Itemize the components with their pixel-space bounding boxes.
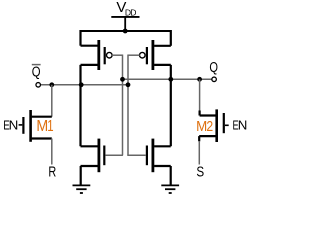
- wire right PMOS source elbow: [170, 30, 172, 46]
- ground right: [161, 185, 179, 193]
- label M2: [196, 117, 213, 134]
- wire M1 source to R: [51, 139, 53, 165]
- wire M2 drain: [199, 79, 201, 111]
- junction right inverter drain on Q line: [168, 77, 173, 82]
- terminal Qbar: [36, 83, 41, 88]
- svg-text:2: 2: [206, 118, 213, 134]
- junction A on Q line: [120, 77, 125, 82]
- nmos left (pull-down of inverter 1): [81, 139, 105, 173]
- wire right PMOS gate to node B: [128, 54, 140, 56]
- svg-text:N: N: [9, 118, 19, 133]
- power symbol VDD bar: [111, 16, 139, 18]
- svg-text:M: M: [196, 117, 207, 134]
- junction VDD rail: [123, 29, 128, 34]
- wire left PMOS source elbow: [79, 30, 81, 46]
- label M1: [36, 117, 53, 135]
- pmos right (pull-up of inverter 2): [140, 40, 171, 70]
- svg-text:R: R: [48, 163, 56, 180]
- wire M2 drain elbow: [199, 111, 201, 116]
- wire vertical A (input of inverter 1): [122, 55, 124, 156]
- nmos right (pull-down of inverter 2): [147, 139, 171, 173]
- wire left NMOS source to ground: [80, 166, 82, 185]
- wire left inverter drain column: [79, 65, 81, 146]
- svg-text:N: N: [238, 118, 248, 133]
- transistor M1 (nmos access, gate left): [19, 110, 52, 142]
- wire M2 source to S: [198, 141, 200, 165]
- wire left PMOS gate to node A: [112, 54, 123, 56]
- wire node Q line: [123, 78, 212, 80]
- label EN right: [233, 118, 248, 133]
- wire M2 source elbow: [198, 136, 200, 141]
- ground left: [73, 185, 91, 193]
- wire vertical B (input of inverter 2): [127, 55, 129, 156]
- transistor M2 (nmos access, gate right): [199, 109, 229, 142]
- wire right NMOS source to ground: [170, 166, 172, 185]
- terminal Q: [212, 77, 217, 82]
- wire VDD stub: [124, 17, 126, 31]
- pmos left (pull-up of inverter 1): [81, 40, 113, 70]
- junction M2 drain on Q line: [197, 77, 202, 82]
- label Qbar: [32, 63, 41, 80]
- svg-text:1: 1: [47, 117, 53, 134]
- wire M1 drain: [51, 85, 53, 117]
- wire left NMOS gate: [105, 154, 123, 156]
- junction left inverter drain on Qbar line: [79, 82, 84, 87]
- svg-text:M: M: [36, 118, 48, 135]
- junction M1 drain on Qbar line: [49, 82, 54, 87]
- svg-text:Q: Q: [32, 63, 41, 80]
- svg-text:S: S: [196, 163, 204, 180]
- wire right inverter drain column: [170, 65, 172, 146]
- svg-text:Q: Q: [209, 59, 218, 76]
- wire right NMOS gate: [127, 154, 146, 156]
- junction B on Qbar line: [126, 82, 131, 87]
- wire node Qbar line: [41, 84, 128, 86]
- wire VDD rail: [81, 30, 171, 32]
- label EN left: [3, 118, 18, 133]
- power label V_DD: [116, 0, 136, 18]
